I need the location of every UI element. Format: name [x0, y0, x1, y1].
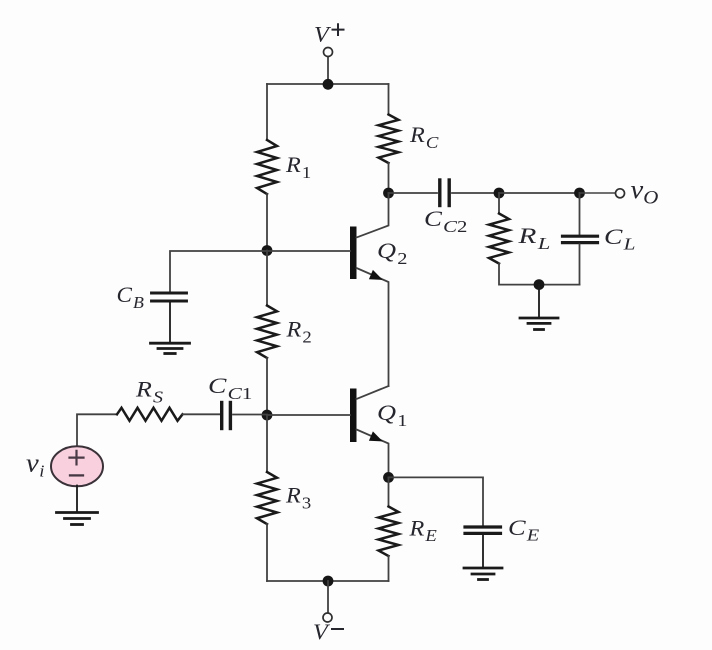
wire node D to node E: [499, 192, 580, 194]
V- supply terminal: [323, 581, 332, 622]
svg-text:vO: vO: [631, 175, 659, 208]
node C (collector node): [383, 188, 394, 199]
resistor R1: [257, 140, 277, 194]
wire vi to RS: [77, 414, 117, 447]
svg-text:V: V: [314, 22, 332, 47]
wire RE bottom: [388, 556, 390, 581]
node A: [262, 245, 273, 256]
resistor RS (horizontal): [117, 408, 183, 421]
svg-text:R2: R2: [285, 317, 311, 346]
svg-text:RC: RC: [409, 123, 440, 152]
svg-text:R3: R3: [285, 484, 311, 513]
wire node G to RE: [388, 477, 390, 506]
capacitor CC2: [440, 180, 449, 206]
ground (CE): [464, 568, 502, 580]
Q2 base wire: [267, 250, 350, 252]
svg-text:Q2: Q2: [377, 239, 407, 269]
node D (RL top): [494, 188, 505, 199]
wire R3 bottom: [266, 524, 268, 581]
capacitor CL: [563, 236, 598, 242]
capacitor CE: [465, 527, 501, 533]
resistor R2: [257, 306, 277, 358]
svg-text:Q1: Q1: [377, 401, 407, 431]
node bottom: [323, 576, 334, 587]
node G (emitter node): [383, 472, 394, 483]
resistor R3: [257, 472, 277, 524]
V+ supply terminal: [324, 48, 333, 85]
wire node D to RL: [498, 193, 500, 214]
resistor RL: [489, 214, 509, 264]
svg-text:CE: CE: [508, 516, 540, 545]
wire RC bottom to node C: [388, 163, 390, 193]
capacitor CC1: [222, 403, 231, 429]
ground (CB): [151, 343, 190, 353]
wire CC1 to node B: [233, 414, 267, 416]
resistor RC: [379, 115, 399, 164]
ground (vi): [57, 513, 98, 525]
wire bottom rail: [267, 580, 389, 582]
resistor RE: [379, 507, 399, 557]
transistor Q2: [350, 193, 389, 386]
Q1 base wire: [267, 414, 350, 416]
ground (output): [520, 318, 558, 330]
svg-text:CL: CL: [604, 225, 635, 253]
svg-text:vi: vi: [26, 449, 44, 481]
svg-text:RE: RE: [408, 516, 436, 544]
wire CE to ground: [482, 535, 484, 568]
node top (junction dot): [323, 79, 334, 90]
node F (RL/CL bottom junction): [534, 279, 545, 290]
wire CB to ground: [169, 303, 171, 343]
svg-text:V: V: [313, 620, 331, 645]
wire node E to CL: [579, 193, 581, 235]
wire node E to vO terminal: [580, 192, 616, 194]
wire CL bottom: [579, 244, 581, 284]
svg-text:RS: RS: [135, 378, 163, 407]
wire node B to R3: [266, 415, 268, 472]
svg-text:RL: RL: [517, 223, 550, 253]
svg-text:CC1: CC1: [208, 374, 252, 403]
wire node G to CE: [389, 477, 484, 525]
wire right rail top: [388, 84, 390, 115]
wire RS to CC1: [183, 413, 221, 415]
svg-text:CC2: CC2: [424, 207, 467, 236]
wire R2 bottom to node B: [266, 358, 268, 415]
wire node C to CC2: [389, 192, 438, 194]
node B: [262, 410, 273, 421]
capacitor CB: [152, 293, 187, 301]
wire vi to ground: [76, 486, 78, 512]
svg-text:CB: CB: [117, 282, 145, 311]
wire R1 bottom to node A: [266, 194, 268, 251]
svg-text:R1: R1: [285, 153, 311, 182]
node E (CL top): [574, 188, 585, 199]
wire RL bottom: [499, 264, 580, 285]
wire CC2 to node D: [452, 192, 499, 194]
wire node A to R2: [266, 251, 268, 306]
wire top rail: [267, 83, 389, 85]
wire left rail upper: [266, 84, 268, 140]
wire node F to ground: [538, 285, 540, 317]
wire node A to CB: [170, 251, 267, 291]
transistor Q1: [350, 386, 389, 477]
vO output terminal: [616, 189, 625, 198]
source vi: [51, 446, 103, 486]
